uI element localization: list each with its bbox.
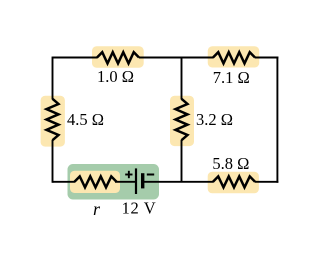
label R3 value 4.5 ohm [67, 110, 104, 129]
label R1 value 1.0 ohm [97, 67, 134, 86]
svg-text:12 V: 12 V [122, 198, 157, 217]
battery V1 short plate (-) [141, 173, 144, 188]
svg-text:r: r [93, 199, 101, 219]
wire battery-right to R5 [143, 181, 214, 183]
resistor R5 highlight [208, 172, 259, 194]
wire middle-rail upper [181, 58, 183, 100]
svg-text:1.0 Ω: 1.0 Ω [97, 67, 134, 86]
resistor R2 highlight [208, 46, 260, 67]
resistor R1 highlight [92, 46, 144, 67]
label r (internal resistance) [93, 199, 101, 219]
wire middle-rail lower [181, 140, 183, 182]
wire top-right [255, 57, 279, 59]
battery plus sign [125, 171, 132, 178]
wire bottom-right [255, 181, 279, 183]
resistor R3 highlight [41, 96, 65, 147]
wire left-rail lower [52, 140, 54, 183]
wire left-rail upper [52, 57, 54, 100]
internal resistance r highlight [70, 171, 120, 193]
svg-text:3.2 Ω: 3.2 Ω [196, 110, 233, 129]
resistor R4 highlight [170, 96, 194, 146]
svg-text:5.8 Ω: 5.8 Ω [212, 154, 249, 173]
resistor R4 zigzag (3.2 ohm) [176, 99, 188, 140]
battery V1 long plate (+) [135, 168, 137, 194]
wire right-rail [276, 57, 278, 183]
wire battery-left lead [115, 181, 136, 183]
svg-text:7.1 Ω: 7.1 Ω [213, 68, 250, 87]
battery highlight (green box) [68, 164, 160, 200]
label R2 value 7.1 ohm [213, 68, 250, 87]
resistor R2 zigzag (7.1 ohm) [213, 52, 255, 63]
wire bottom-left [53, 181, 76, 183]
battery minus sign [147, 174, 154, 176]
resistor R5 zigzag (5.8 ohm) [213, 176, 255, 187]
svg-text:4.5 Ω: 4.5 Ω [67, 110, 104, 129]
wire top-middle [139, 57, 214, 59]
resistor R1 zigzag (1.0 ohm) [97, 52, 139, 63]
label battery voltage 12 V [122, 198, 157, 217]
label R5 value 5.8 ohm [212, 154, 249, 173]
internal resistance r zigzag [75, 176, 117, 187]
label R4 value 3.2 ohm [196, 110, 233, 129]
resistor R3 zigzag (4.5 ohm) [47, 99, 59, 140]
wire top-left [53, 57, 98, 59]
